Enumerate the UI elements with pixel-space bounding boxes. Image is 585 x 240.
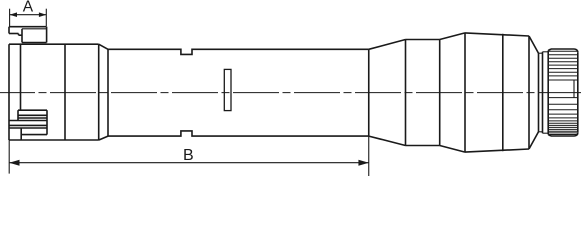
drum bottom-right corner — [575, 133, 578, 136]
neck band 2 top — [543, 51, 549, 53]
wide body bottom edge — [465, 149, 529, 152]
anvil slot right vertical — [46, 110, 48, 134]
wide body division vertical — [502, 34, 504, 151]
svg-text:A: A — [23, 0, 34, 16]
anvil block bottom — [21, 134, 47, 136]
head inner vertical 2 — [64, 44, 66, 140]
anvil slot line 1 — [18, 109, 47, 111]
clamp outer top edge — [9, 26, 47, 28]
body cylinder bottom edge — [406, 145, 440, 147]
tube junction vertical — [107, 49, 109, 136]
dimension B extension line right — [368, 136, 370, 176]
tube bottom edge with notch — [108, 131, 369, 136]
body cylinder top edge — [406, 39, 440, 41]
head-tube taper bottom — [99, 136, 108, 140]
dimension A arrowhead right — [39, 12, 46, 17]
dimension B arrowhead right — [358, 160, 368, 166]
anvil wide block mid — [9, 124, 47, 126]
drum right edge — [577, 52, 579, 132]
dimension A line — [10, 14, 47, 16]
tube slot rectangle — [224, 69, 231, 110]
dimension A arrowhead left — [10, 12, 17, 17]
cone bottom edge — [369, 136, 406, 145]
anvil slot line 2 — [18, 114, 47, 116]
tube end vertical — [368, 49, 370, 136]
tube top edge with notch — [108, 49, 369, 54]
centerline (dash-dot axis) — [0, 92, 581, 94]
clamp step bottom left — [9, 33, 19, 35]
cone end vertical — [405, 40, 407, 146]
head left edge — [8, 44, 10, 140]
clamp right edge — [46, 27, 48, 43]
drum left edge — [547, 51, 549, 135]
dimension A extension line right — [45, 9, 47, 27]
anvil slot line 3 — [18, 117, 47, 119]
neck cone bottom — [529, 132, 539, 149]
drum middle band inner vertical — [573, 80, 575, 98]
cone top edge — [369, 40, 406, 50]
body slant top — [440, 33, 465, 40]
anvil lower block right vertical — [20, 128, 22, 140]
drum top chamfer — [548, 49, 551, 51]
neck cone top — [529, 36, 539, 53]
drum knurling lower stripes — [549, 97, 577, 99]
neck band 2 bottom — [543, 132, 549, 134]
clamp inner top edge — [22, 28, 47, 30]
wide body top edge — [465, 33, 529, 36]
clamp step horizontal — [19, 34, 23, 36]
anvil slot left vertical — [17, 110, 19, 120]
drum top edge — [551, 48, 575, 50]
head right edge — [98, 44, 100, 140]
drum bottom chamfer — [548, 135, 551, 137]
body wide section left vertical — [464, 33, 466, 152]
clamp bottom edge — [22, 42, 47, 44]
clamp step vertical — [18, 34, 20, 36]
drum knurling upper stripes — [549, 50, 577, 52]
neck vertical 2 — [542, 52, 544, 133]
neck band 1 bottom — [539, 131, 543, 133]
neck vertical 1 — [538, 53, 540, 132]
head inner vertical 1 — [20, 44, 22, 110]
wide body right vertical — [528, 36, 530, 149]
drum bottom edge — [551, 135, 575, 137]
anvil wide block lower — [9, 127, 47, 129]
body slant bottom — [440, 146, 465, 153]
head bottom edge — [9, 139, 99, 141]
dimension A extension line left — [9, 9, 11, 27]
head top edge — [9, 43, 99, 45]
dimension B arrowhead left — [9, 160, 19, 166]
dimension B line — [9, 162, 369, 164]
drum top-right corner — [575, 49, 578, 52]
dimension B extension line left — [8, 140, 10, 174]
clamp inner vertical — [21, 29, 23, 43]
svg-text:B: B — [183, 147, 194, 164]
anvil wide block top — [9, 120, 47, 122]
clamp left edge — [8, 27, 10, 34]
body cylinder end vertical — [439, 40, 441, 146]
neck band 1 top — [539, 52, 543, 54]
head-tube taper top — [99, 44, 108, 49]
